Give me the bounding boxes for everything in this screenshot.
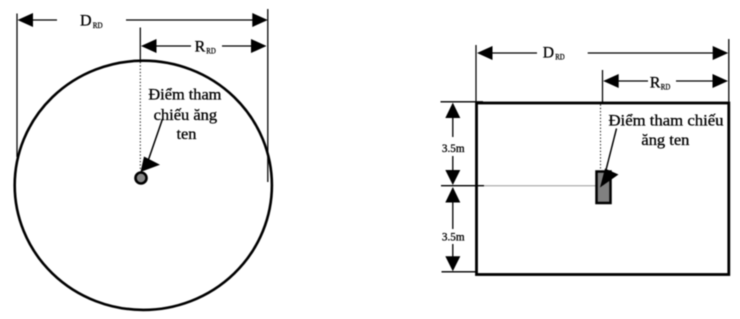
- label R_RD (right diagram): [650, 74, 671, 91]
- svg-text:Điểm tham chiếu: Điểm tham chiếu: [609, 112, 724, 129]
- extension line center (left diagram R_RD): [139, 28, 141, 61]
- svg-text:D: D: [80, 13, 92, 30]
- dimension R_RD (right diagram): [603, 74, 728, 88]
- rectangle (right diagram): [477, 103, 729, 275]
- svg-text:Điểm tham: Điểm tham: [148, 87, 222, 104]
- dimension R_RD (left diagram): [141, 39, 267, 53]
- tick bottom (right diagram vertical dimension): [442, 271, 476, 273]
- label D_RD (left diagram): [80, 13, 103, 30]
- circle (antenna zone, left diagram): [15, 61, 272, 310]
- svg-text:RD: RD: [206, 47, 216, 56]
- svg-text:RD: RD: [93, 21, 103, 30]
- tick top (right diagram vertical dimension): [441, 101, 484, 103]
- leader arrowhead (left diagram): [141, 157, 161, 173]
- label D_RD (right diagram): [543, 45, 565, 62]
- antenna reference dot (left diagram): [136, 173, 147, 184]
- dimension D_RD (right diagram): [477, 46, 728, 60]
- extension line left (left diagram): [16, 14, 18, 158]
- svg-text:R: R: [195, 38, 206, 55]
- svg-text:3.5m: 3.5m: [442, 231, 465, 243]
- tick middle / line to antenna (right diagram): [441, 185, 484, 187]
- svg-text:RD: RD: [661, 83, 671, 92]
- svg-text:D: D: [543, 45, 554, 62]
- svg-text:RD: RD: [555, 53, 565, 62]
- extension line left (right diagram D_RD): [475, 45, 477, 102]
- label R_RD (left diagram): [195, 38, 216, 55]
- leader line (right diagram): [606, 129, 617, 171]
- vertical dimension 3.5m lower (right diagram): [445, 187, 460, 271]
- extension line center (right diagram R_RD): [602, 70, 604, 103]
- label Diem tham chieu ang ten (left diagram): [148, 87, 222, 144]
- svg-text:ăng ten: ăng ten: [641, 132, 689, 149]
- svg-text:R: R: [650, 74, 661, 91]
- dotted centerline (right diagram): [600, 105, 602, 171]
- extension line right (right diagram): [728, 39, 730, 103]
- vertical dimension 3.5m upper (right diagram): [445, 103, 460, 185]
- extension line right (left diagram): [267, 9, 269, 182]
- svg-text:3.5m: 3.5m: [442, 143, 465, 155]
- svg-text:chiếu ăng: chiếu ăng: [154, 107, 218, 124]
- svg-text:ten: ten: [177, 126, 197, 143]
- dotted centerline (left diagram): [139, 62, 141, 171]
- label Diem tham chieu ang ten (right diagram): [609, 112, 724, 149]
- leader arrowhead (right diagram): [600, 169, 619, 188]
- antenna rectangle (right diagram): [597, 172, 611, 204]
- leader line (left diagram): [148, 119, 163, 161]
- dimension D_RD (left diagram): [18, 13, 268, 27]
